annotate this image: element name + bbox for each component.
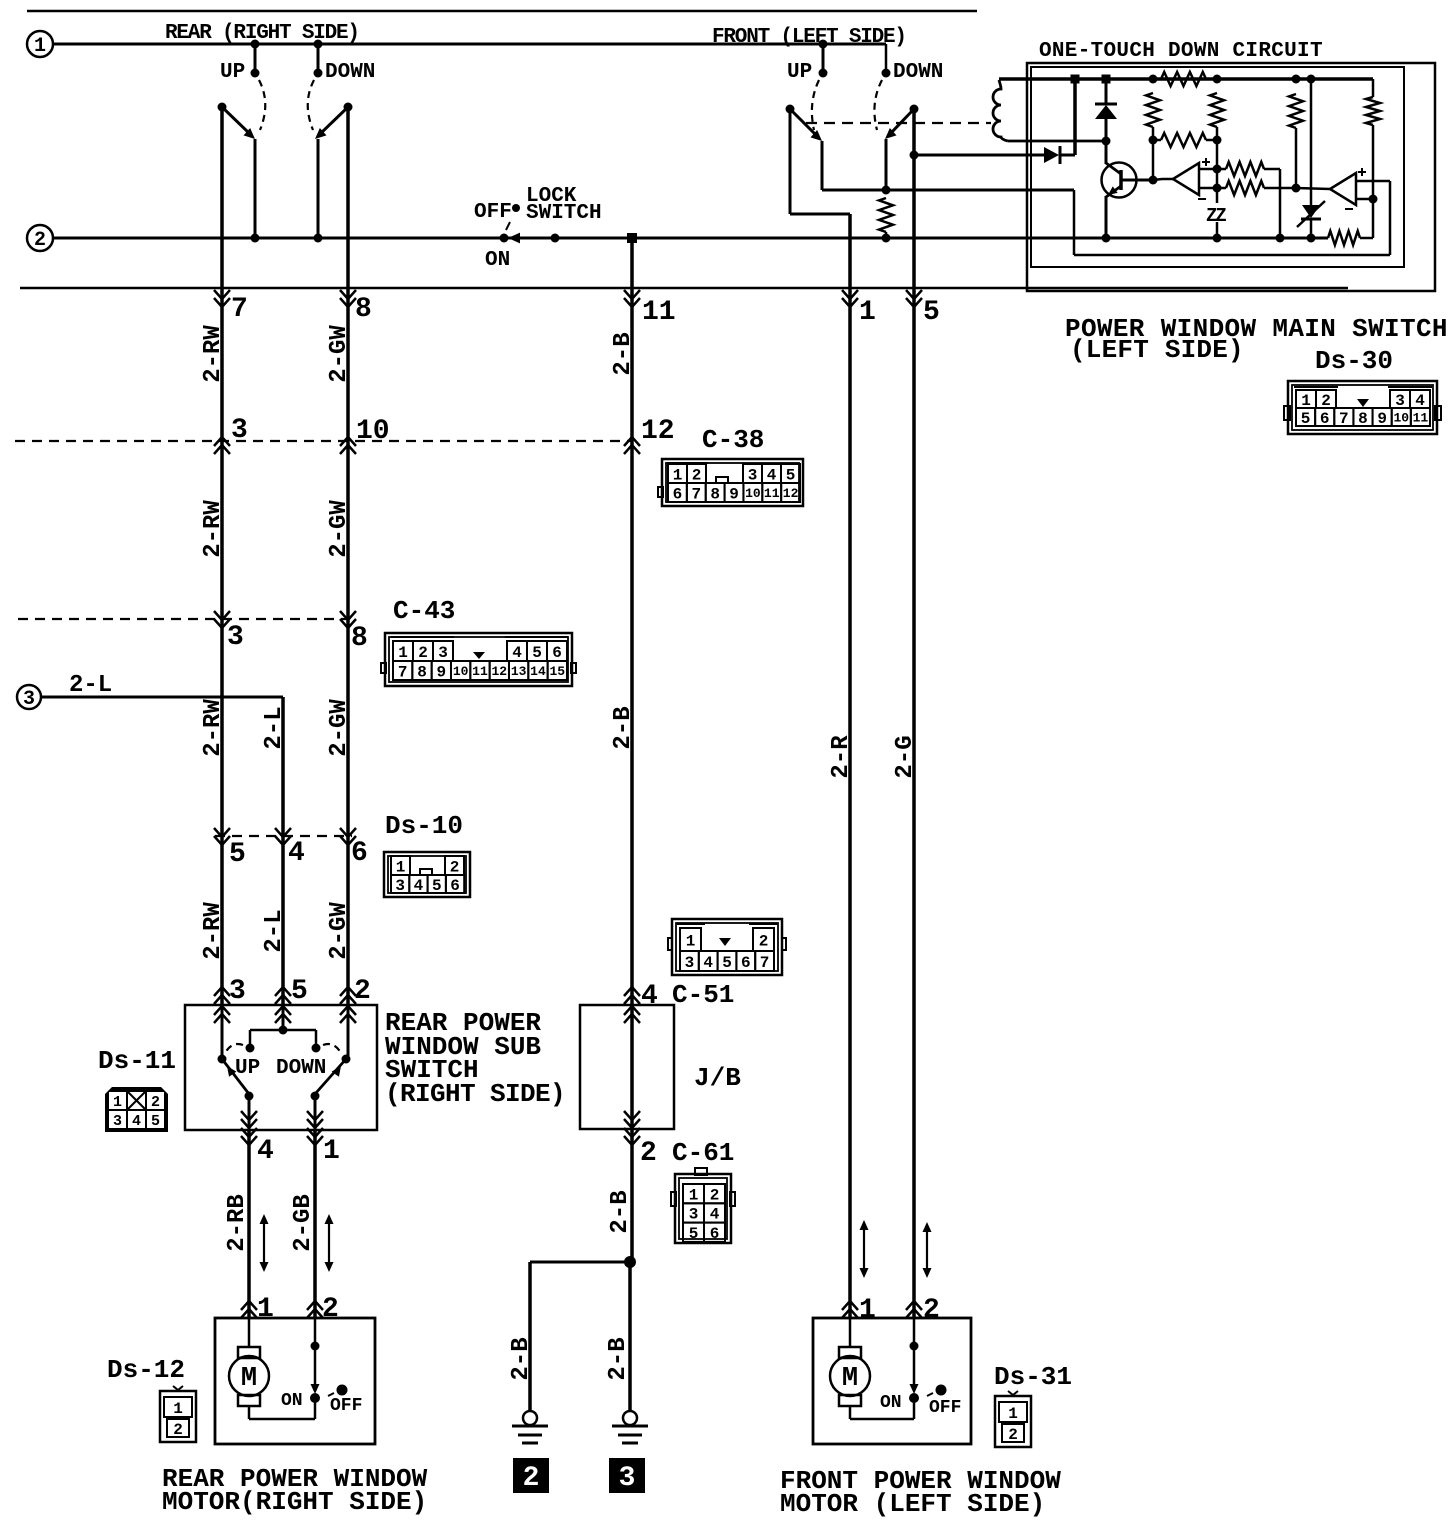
- svg-text:6: 6: [710, 1225, 720, 1243]
- svg-text:3: 3: [229, 976, 246, 1007]
- diode D2 clamp vertical: [1105, 79, 1108, 104]
- svg-text:2: 2: [523, 1463, 540, 1494]
- svg-text:8: 8: [1358, 410, 1368, 428]
- arrow sub down exit below: [307, 1128, 323, 1137]
- node 3 circle terminal: [17, 685, 41, 709]
- svg-text:M: M: [241, 1364, 257, 1394]
- wire sub 2-RW stub: [221, 1005, 224, 1059]
- wire one-touch diode feed: [914, 154, 1044, 157]
- connector C-51 pinout: [672, 919, 782, 975]
- svg-text:11: 11: [472, 664, 488, 679]
- svg-text:8: 8: [710, 485, 720, 503]
- svg-text:11: 11: [764, 486, 780, 501]
- node rear breaker OFF contact: [337, 1385, 348, 1396]
- svg-text:6: 6: [1320, 410, 1330, 428]
- diode D1 trigger: [1044, 147, 1059, 163]
- svg-text:5: 5: [229, 839, 246, 870]
- wire dashed interface B: [18, 618, 348, 620]
- node rear breaker top: [311, 1342, 320, 1351]
- resistor front switch pull-down: [879, 198, 893, 232]
- arrow into rear motor right: [307, 1309, 323, 1318]
- wire rear motor lead 2: [314, 1318, 317, 1388]
- wire rear up contact stub: [254, 44, 257, 72]
- wire top rail right corner drop: [1372, 79, 1375, 97]
- node front down contact: [882, 69, 891, 78]
- svg-text:J/B: J/B: [694, 1063, 741, 1093]
- svg-text:5: 5: [722, 954, 732, 972]
- svg-text:7: 7: [760, 954, 770, 972]
- arrow sub up exit inside: [241, 1111, 257, 1120]
- resistor R2: [1146, 93, 1160, 127]
- node feedback junction on rail: [1276, 234, 1285, 243]
- wire 2-B to ground junction: [630, 1129, 634, 1262]
- wire 2-R drop from corner: [848, 214, 852, 1318]
- node top rail junction B: [1102, 75, 1111, 84]
- svg-text:11: 11: [642, 297, 676, 328]
- wire comp1 minus input: [1199, 187, 1226, 190]
- node front up switch pole: [786, 105, 795, 114]
- one-touch outer border: [1027, 63, 1435, 291]
- node 2-B tap junction on line2: [627, 233, 637, 243]
- svg-text:1: 1: [398, 644, 408, 662]
- svg-text:1: 1: [689, 1186, 699, 1204]
- svg-text:9: 9: [1377, 410, 1387, 428]
- svg-text:7: 7: [231, 294, 248, 325]
- wire front down contact vertical: [885, 139, 888, 190]
- wire coil bottom to node: [1008, 140, 1106, 143]
- svg-text:3: 3: [23, 688, 35, 711]
- wire sub up output drop: [248, 1096, 251, 1130]
- node rear up fixed contact on line1: [251, 40, 260, 49]
- svg-text:5: 5: [432, 877, 442, 895]
- wire comp1 output to base node: [1153, 179, 1162, 180]
- svg-text:1: 1: [859, 1295, 876, 1326]
- svg-text:2-B: 2-B: [607, 1190, 634, 1233]
- svg-text:2-L: 2-L: [69, 672, 112, 699]
- arrow 2-B inside J/B bottom: [624, 1111, 640, 1120]
- svg-text:1: 1: [396, 858, 406, 876]
- svg-text:4: 4: [710, 1206, 720, 1224]
- svg-text:UP: UP: [787, 61, 812, 84]
- wire zener2 to rail: [1310, 219, 1313, 238]
- wire front motor return: [849, 1406, 852, 1419]
- wire front up pole down: [789, 109, 792, 214]
- node rear up contact: [251, 69, 260, 78]
- svg-text:5: 5: [532, 644, 542, 662]
- rear motor box: [215, 1318, 375, 1444]
- connector Ds-12 pinout: [160, 1391, 196, 1442]
- switch front down moving contact arm: [890, 109, 914, 134]
- svg-text:C-51: C-51: [672, 980, 734, 1010]
- arrow 2-B inside J/B top: [624, 1014, 640, 1023]
- resistor R6: [1366, 97, 1380, 125]
- svg-text:ON: ON: [880, 1393, 902, 1413]
- svg-text:6: 6: [673, 485, 683, 503]
- svg-text:4: 4: [414, 877, 424, 895]
- svg-text:C-61: C-61: [672, 1138, 734, 1168]
- svg-text:C-43: C-43: [393, 596, 455, 626]
- svg-text:14: 14: [530, 664, 546, 679]
- svg-text:1: 1: [859, 297, 876, 328]
- wire resistor to line2: [885, 232, 888, 238]
- wire zener to rail: [1216, 222, 1219, 238]
- ground symbol 3: [623, 1411, 637, 1425]
- svg-text:Ds-12: Ds-12: [107, 1355, 185, 1385]
- node sub down output: [311, 1092, 320, 1101]
- svg-text:3: 3: [685, 954, 695, 972]
- node lock switch ON contact: [551, 234, 560, 243]
- svg-text:2-RW: 2-RW: [200, 699, 227, 757]
- wire 2-RW upper: [220, 107, 224, 1005]
- wire 2-RB: [247, 1130, 251, 1318]
- wire harness separator line: [20, 287, 1348, 290]
- svg-text:OFF: OFF: [474, 201, 512, 224]
- svg-text:2-RW: 2-RW: [200, 325, 227, 383]
- arrow 2-R below separator: [842, 290, 858, 299]
- connector C-61 pinout: [675, 1174, 731, 1243]
- wire sub up travel arc dashed: [225, 1044, 243, 1053]
- svg-text:2: 2: [173, 1421, 183, 1439]
- node sub down fixed contact: [312, 1044, 321, 1053]
- node top rail junction C: [1149, 75, 1158, 84]
- node lock switch pivot: [500, 234, 509, 243]
- svg-text:6: 6: [351, 838, 368, 869]
- svg-text:6: 6: [741, 954, 751, 972]
- connector Ds-30 pinout: [1288, 381, 1437, 434]
- resistor R8 input: [1226, 181, 1264, 195]
- node coil return junction: [1102, 137, 1111, 146]
- wire ground branch left drop: [528, 1262, 532, 1411]
- wire sense route up: [1389, 181, 1392, 255]
- wire 2-B vertical: [630, 238, 634, 1005]
- arrow 2-RW at B: [214, 611, 230, 620]
- switch sub up arm: [222, 1059, 249, 1094]
- svg-text:7: 7: [398, 663, 408, 681]
- node ground branch junction: [624, 1256, 636, 1268]
- arrow 2-RW at Ds-10: [214, 828, 230, 837]
- svg-text:OFF: OFF: [929, 1398, 961, 1418]
- node front down switch pole: [910, 105, 919, 114]
- wire R3 to node: [1216, 127, 1219, 140]
- node front sense junction: [882, 186, 891, 195]
- node front down pole tap: [910, 151, 919, 160]
- svg-text:5: 5: [1301, 410, 1311, 428]
- svg-text:2: 2: [640, 1138, 657, 1169]
- wire feedback drop: [1279, 169, 1282, 238]
- svg-text:Ds-31: Ds-31: [994, 1362, 1072, 1392]
- svg-text:8: 8: [351, 623, 368, 654]
- arrow 2-B below J/B: [624, 1128, 640, 1137]
- node front up fixed contact on line1: [819, 40, 828, 49]
- switch rear up moving contact arm: [222, 107, 250, 134]
- node sub up pole: [218, 1055, 227, 1064]
- arrow 2-GW at B: [340, 611, 356, 620]
- svg-text:5: 5: [689, 1225, 699, 1243]
- svg-text:2-RB: 2-RB: [224, 1194, 251, 1252]
- node front breaker top: [910, 1342, 919, 1351]
- wire rear motor lead 1: [248, 1318, 251, 1347]
- svg-text:15: 15: [550, 664, 566, 679]
- node top rail junction D: [1213, 75, 1222, 84]
- direction arrow rear right: [328, 1223, 330, 1263]
- svg-text:DOWN: DOWN: [325, 61, 375, 84]
- wire rear down common to line2: [317, 139, 320, 238]
- wire one-touch top rail: [999, 77, 1373, 81]
- wire dashed interface Ds-10: [215, 835, 352, 837]
- svg-text:2-B: 2-B: [508, 1337, 535, 1380]
- svg-text:13: 13: [511, 664, 527, 679]
- wire minus node drop: [1372, 199, 1375, 238]
- sub switch box: [185, 1005, 377, 1130]
- arrow 2-GW at Ds-10: [340, 828, 356, 837]
- zener D3: [1302, 205, 1320, 218]
- resistor R3: [1210, 93, 1224, 127]
- svg-text:2: 2: [354, 976, 371, 1007]
- svg-text:ON: ON: [281, 1391, 303, 1411]
- arrow 2-B at A: [624, 445, 640, 454]
- svg-text:2-L: 2-L: [261, 909, 288, 952]
- svg-text:1: 1: [323, 1136, 340, 1167]
- node top rail junction F: [1307, 75, 1316, 84]
- wire mid vertical to base node: [1152, 140, 1155, 180]
- direction arrow front left: [863, 1229, 865, 1269]
- node comp1 plus junction: [1213, 165, 1222, 174]
- svg-text:1: 1: [173, 1400, 183, 1418]
- svg-text:2-GB: 2-GB: [290, 1194, 317, 1252]
- wire front up sense vertical: [821, 141, 824, 190]
- node R2 bottom junction: [1149, 136, 1158, 145]
- arrow 2-GW below separator: [340, 290, 356, 299]
- svg-text:2-GW: 2-GW: [326, 699, 353, 757]
- arrow into front motor left: [842, 1309, 858, 1318]
- arrow sub down exit inside: [307, 1111, 323, 1120]
- arrow 2-L into sub switch: [275, 995, 291, 1004]
- wire front up travel arc dashed: [812, 80, 819, 130]
- svg-text:DOWN: DOWN: [893, 61, 943, 84]
- svg-text:6: 6: [450, 877, 460, 895]
- svg-text:M: M: [842, 1364, 858, 1394]
- wire R7 to corner: [1264, 168, 1280, 171]
- wire R6 to minus node: [1372, 125, 1375, 199]
- svg-text:5: 5: [923, 297, 940, 328]
- svg-text:4: 4: [132, 1113, 141, 1130]
- svg-text:MOTOR(RIGHT SIDE): MOTOR(RIGHT SIDE): [162, 1487, 427, 1517]
- wire R8 to node: [1264, 187, 1296, 190]
- svg-text:C-38: C-38: [702, 425, 764, 455]
- svg-text:1: 1: [673, 466, 683, 484]
- wire 2-GW upper: [346, 107, 350, 1005]
- svg-text:10: 10: [356, 416, 390, 447]
- wire sub contact bar: [250, 1029, 316, 1032]
- svg-text:3: 3: [748, 466, 758, 484]
- svg-text:9: 9: [729, 485, 739, 503]
- ground ref box 2: [513, 1458, 549, 1493]
- wire rear motor return: [248, 1406, 251, 1419]
- arrow 2-RW into sub switch: [214, 995, 230, 1004]
- svg-text:3: 3: [395, 877, 405, 895]
- svg-text:SWITCH: SWITCH: [526, 202, 602, 225]
- wire comp2 output link: [1296, 188, 1330, 189]
- svg-text:3: 3: [689, 1206, 699, 1224]
- arrow 2-RW below separator: [214, 290, 230, 299]
- svg-text:ONE-TOUCH DOWN CIRCUIT: ONE-TOUCH DOWN CIRCUIT: [1039, 40, 1323, 63]
- node rear down fixed contact on line1: [314, 40, 323, 49]
- svg-text:1: 1: [1008, 1405, 1018, 1423]
- svg-text:7: 7: [1339, 410, 1349, 428]
- direction arrow front right: [926, 1231, 928, 1269]
- arrow 2-B into J/B: [624, 995, 640, 1004]
- svg-text:12: 12: [783, 486, 799, 501]
- wire mechanical linkage dashed: [806, 122, 991, 124]
- svg-text:2: 2: [151, 1094, 160, 1111]
- arrow 2-L at Ds-10: [275, 828, 291, 837]
- svg-text:3: 3: [438, 644, 448, 662]
- node sub down pole: [342, 1055, 351, 1064]
- svg-text:1: 1: [686, 932, 696, 950]
- arrow into front motor right: [906, 1309, 922, 1318]
- svg-text:ON: ON: [485, 249, 510, 272]
- one-touch inner border: [1031, 67, 1404, 267]
- arrow 2-GW at A: [340, 445, 356, 454]
- wire line 2 horizontal bus: [53, 237, 1328, 240]
- svg-text:3: 3: [113, 1113, 122, 1130]
- wire sub down output drop: [314, 1096, 317, 1130]
- svg-text:2-G: 2-G: [892, 735, 919, 778]
- node rear down common junction on line2: [314, 234, 323, 243]
- svg-text:12: 12: [641, 416, 675, 447]
- node 1 circle terminal: [27, 31, 53, 57]
- wire sense route bottom: [1074, 254, 1390, 257]
- wire rear down travel arc dashed: [308, 80, 314, 130]
- node front resistor junction on line2: [882, 234, 891, 243]
- svg-text:2-B: 2-B: [610, 332, 637, 375]
- node front breaker OFF contact: [936, 1385, 947, 1396]
- wire sub 2-GW stub: [347, 1005, 350, 1059]
- wire top bus line: [27, 10, 977, 13]
- switch front breaker arm: [910, 1384, 919, 1394]
- wire Q1 base line: [1121, 179, 1153, 182]
- wire collector drop: [1105, 141, 1108, 164]
- svg-text:5: 5: [786, 466, 796, 484]
- wire 2-B through J/B: [630, 1005, 634, 1129]
- junction block J/B box: [580, 1005, 674, 1129]
- node rear down switch pole: [344, 103, 353, 112]
- svg-text:REAR (RIGHT SIDE): REAR (RIGHT SIDE): [165, 22, 359, 45]
- svg-text:(LEFT SIDE): (LEFT SIDE): [1070, 335, 1244, 365]
- resistor R1 top rail: [1161, 72, 1206, 86]
- wire front up contact stub: [822, 44, 825, 72]
- wire dashed interface A: [15, 440, 632, 442]
- svg-text:MOTOR (LEFT SIDE): MOTOR (LEFT SIDE): [780, 1489, 1045, 1519]
- svg-text:2-B: 2-B: [610, 706, 637, 749]
- node sub center junction: [279, 1026, 288, 1035]
- arrow 2-RW at A: [214, 445, 230, 454]
- wire divider vertical: [1216, 140, 1219, 203]
- svg-text:2: 2: [34, 229, 46, 252]
- node front breaker ON contact: [909, 1393, 919, 1403]
- op-amp U1 comparator: [1173, 163, 1199, 195]
- wire R2 to node: [1152, 127, 1155, 140]
- relay coil K1: [993, 80, 1008, 141]
- svg-text:10: 10: [453, 664, 469, 679]
- svg-text:2-RW: 2-RW: [200, 500, 227, 558]
- arrow 2-GW inside sub: [340, 1014, 356, 1023]
- wire front motor lead 1: [849, 1318, 852, 1347]
- svg-text:10: 10: [745, 486, 761, 501]
- wire emitter drop to rail: [1105, 196, 1108, 238]
- switch lock movable arm arrow: [508, 233, 520, 244]
- node zener2 rail junction: [1307, 234, 1316, 243]
- svg-text:5: 5: [151, 1113, 160, 1130]
- svg-text:4: 4: [288, 838, 305, 869]
- svg-text:2-GW: 2-GW: [326, 500, 353, 558]
- svg-text:4: 4: [641, 981, 658, 1012]
- svg-text:2: 2: [450, 858, 460, 876]
- arrow 2-GW into sub switch: [340, 995, 356, 1004]
- node lock switch OFF contact: [512, 204, 520, 212]
- svg-text:FRONT (LEFT SIDE): FRONT (LEFT SIDE): [712, 26, 906, 49]
- resistor R9 bottom: [1328, 231, 1360, 245]
- node sub up output: [245, 1092, 254, 1101]
- wire comp2 plus input: [1356, 180, 1390, 183]
- op-amp U2 comparator: [1330, 173, 1356, 205]
- wire R9 to corner: [1360, 237, 1373, 240]
- wire front motor lead 2: [913, 1318, 916, 1388]
- wire R5 drop to node: [1295, 128, 1298, 188]
- node zz rail junction: [1213, 234, 1222, 243]
- arrow sub up exit below: [241, 1128, 257, 1137]
- node base junction: [1149, 176, 1158, 185]
- resistor R5: [1289, 94, 1303, 128]
- wire ground branch right drop: [628, 1262, 632, 1411]
- svg-text:9: 9: [437, 663, 447, 681]
- node 2 circle terminal: [27, 225, 53, 251]
- svg-text:10: 10: [1393, 411, 1409, 426]
- svg-text:2-RW: 2-RW: [200, 902, 227, 960]
- svg-text:3: 3: [231, 415, 248, 446]
- wire ground branch horizontal: [530, 1261, 630, 1264]
- node rear breaker ON contact: [310, 1393, 320, 1403]
- svg-text:11: 11: [1413, 411, 1429, 426]
- wire front up pole corner: [790, 213, 850, 216]
- wire sub down travel arc dashed: [323, 1044, 341, 1053]
- svg-text:7: 7: [691, 485, 701, 503]
- svg-text:2-B: 2-B: [605, 1337, 632, 1380]
- svg-text:1: 1: [34, 35, 46, 58]
- svg-text:2: 2: [692, 466, 702, 484]
- wire 2-L vertical drop: [281, 697, 285, 1005]
- front motor box: [813, 1318, 971, 1444]
- transistor Q1: [1102, 163, 1137, 198]
- arrow 2-RW inside sub: [214, 1014, 230, 1023]
- connector Ds-11 pinout: [105, 1087, 168, 1132]
- svg-text:5: 5: [291, 976, 308, 1007]
- node comp2 minus junction: [1369, 195, 1378, 204]
- wire front down travel arc dashed: [874, 80, 882, 130]
- svg-text:1: 1: [113, 1094, 122, 1111]
- wire 2-GB: [313, 1130, 317, 1318]
- svg-text:3: 3: [227, 622, 244, 653]
- svg-text:OFF: OFF: [330, 1396, 362, 1416]
- svg-text:12: 12: [492, 664, 508, 679]
- motor M2 front: [839, 1347, 861, 1358]
- arrow into rear motor left: [241, 1309, 257, 1318]
- node top rail junction E: [1292, 75, 1301, 84]
- wire thick drop to diode line: [1073, 79, 1077, 155]
- switch sub down arm: [315, 1059, 346, 1094]
- motor M1 rear: [238, 1347, 260, 1358]
- svg-text:2-R: 2-R: [828, 735, 855, 779]
